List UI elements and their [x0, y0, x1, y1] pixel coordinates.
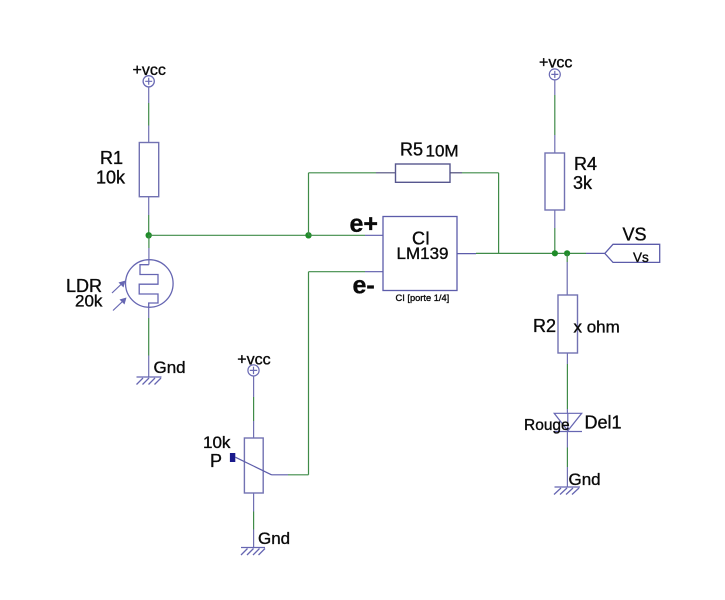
svg-text:R1: R1 [100, 148, 123, 168]
LED Del1 (Rouge) [524, 413, 622, 435]
power symbol +vcc (left) [133, 62, 166, 87]
wire R4 to node C [554, 210, 556, 253]
wire node B to R5 (feedback riser) [309, 173, 396, 236]
svg-text:Vs: Vs [633, 250, 649, 265]
svg-text:20k: 20k [75, 292, 103, 311]
wire R1 to node A [148, 197, 150, 236]
wire wiper to e- (via vertical riser) [272, 272, 384, 475]
wire vcc to R4 [554, 80, 556, 153]
node B junction dot [305, 232, 311, 238]
wire potentiometer to ground [253, 493, 255, 548]
node D junction dot [564, 250, 570, 256]
power symbol +vcc (middle) [237, 352, 270, 377]
svg-text:P: P [210, 451, 222, 471]
svg-text:Gnd: Gnd [569, 470, 601, 489]
svg-text:+vcc: +vcc [133, 62, 166, 79]
wire node D to R2 [566, 253, 568, 295]
wire node A to node B (horizontal) [149, 234, 309, 236]
ground (LDR) [137, 358, 186, 385]
light arrow 1 [112, 281, 126, 294]
svg-text:x ohm: x ohm [574, 318, 620, 337]
power symbol +vcc (right) [539, 55, 572, 80]
svg-text:Del1: Del1 [585, 413, 622, 433]
svg-text:CI [porte 1/4]: CI [porte 1/4] [396, 293, 450, 303]
wire R5 to output [450, 173, 499, 254]
light arrow 2 [113, 298, 127, 311]
svg-text:10k: 10k [96, 168, 126, 188]
node C junction dot [552, 250, 558, 256]
svg-text:Gnd: Gnd [258, 529, 290, 548]
svg-text:10k: 10k [203, 433, 231, 452]
wire node B to e+ input [309, 234, 384, 236]
ground (potentiometer) [241, 529, 290, 555]
wire output [457, 252, 605, 254]
svg-text:LM139: LM139 [397, 244, 449, 263]
op-amp U1 comparator CI LM139 [383, 217, 457, 303]
svg-text:Rouge: Rouge [524, 417, 570, 434]
svg-text:e+: e+ [350, 210, 379, 238]
net label VS output tag [605, 225, 660, 266]
ground (LED) [554, 470, 601, 495]
resistor R4 [545, 153, 597, 210]
svg-text:R2: R2 [533, 316, 556, 336]
svg-text:10M: 10M [426, 142, 459, 161]
wire LDR to ground [148, 308, 150, 378]
wire LED to ground [566, 432, 568, 488]
wire vcc to potentiometer [253, 376, 255, 438]
resistor R1 [96, 143, 159, 197]
wire vcc to R1 [148, 87, 150, 143]
potentiometer P 10k [203, 433, 272, 493]
node A junction dot [146, 232, 152, 238]
wire node A to LDR [148, 235, 150, 264]
svg-text:VS: VS [623, 225, 647, 245]
resistor R2 [533, 295, 620, 353]
svg-text:Gnd: Gnd [154, 358, 186, 377]
svg-text:e-: e- [353, 272, 375, 300]
svg-text:R5: R5 [400, 140, 423, 160]
wire R2 to LED [566, 353, 568, 413]
photoresistor LDR 20k [66, 260, 173, 311]
svg-text:3k: 3k [573, 173, 593, 193]
resistor R5 10M [396, 140, 459, 183]
svg-text:R4: R4 [574, 154, 597, 174]
svg-text:+vcc: +vcc [237, 352, 270, 369]
